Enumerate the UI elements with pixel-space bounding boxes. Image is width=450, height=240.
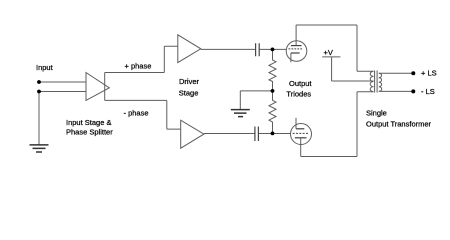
svg-text:+ phase: + phase xyxy=(125,61,152,70)
svg-text:Output: Output xyxy=(289,79,312,88)
svg-text:- phase: - phase xyxy=(124,108,149,117)
svg-text:+ LS: + LS xyxy=(421,69,437,78)
svg-text:Input Stage &: Input Stage & xyxy=(66,118,111,127)
svg-text:Output Transformer: Output Transformer xyxy=(366,119,432,128)
svg-text:+V: +V xyxy=(324,48,333,57)
svg-text:Triodes: Triodes xyxy=(286,89,311,98)
svg-text:Input: Input xyxy=(36,63,54,72)
svg-text:Stage: Stage xyxy=(179,89,199,98)
svg-text:Phase Splitter: Phase Splitter xyxy=(66,127,113,136)
svg-text:- LS: - LS xyxy=(421,87,435,96)
svg-text:Single: Single xyxy=(366,108,387,117)
svg-text:Driver: Driver xyxy=(179,77,200,86)
